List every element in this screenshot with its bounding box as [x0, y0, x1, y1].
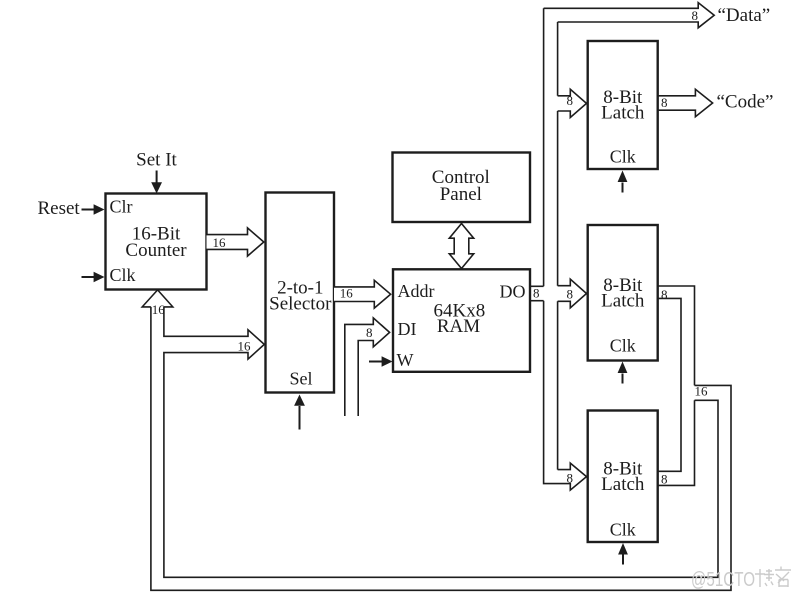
svg-text:Latch: Latch	[601, 103, 645, 124]
watermark CJK glyph strokes	[755, 567, 791, 588]
wire DO vertical bus right side	[557, 22, 559, 470]
wire Set It arrow into counter top	[151, 171, 162, 194]
svg-text:Clk: Clk	[610, 520, 636, 540]
svg-text:Counter: Counter	[125, 240, 187, 261]
svg-text:Clr: Clr	[110, 197, 133, 217]
bus latch2 output inner line joining latch3 output	[658, 298, 681, 471]
svg-text:8: 8	[567, 93, 574, 108]
wire Reset arrow into Clr	[82, 204, 105, 215]
bus counter to selector (16)	[207, 228, 264, 256]
svg-text:16: 16	[213, 235, 227, 250]
svg-text:Clk: Clk	[610, 147, 636, 167]
svg-text:@51CTO: @51CTO	[691, 569, 755, 591]
svg-text:8: 8	[567, 471, 574, 486]
block U1 16-Bit Counter	[106, 194, 207, 290]
svg-text:8: 8	[661, 95, 668, 110]
svg-text:Sel: Sel	[289, 369, 312, 389]
svg-text:Panel: Panel	[440, 184, 482, 205]
wire clk arrow latch2	[618, 362, 628, 384]
svg-text:W: W	[397, 350, 414, 370]
bus DO output stub (8)	[530, 286, 544, 300]
bus selector to RAM Addr (16)	[334, 280, 391, 308]
wire feedback outer boundary (left/bottom/right)	[151, 307, 731, 590]
svg-text:8: 8	[567, 287, 574, 302]
wire clock arrow into Clk (counter)	[82, 272, 105, 283]
svg-text:8: 8	[661, 472, 668, 487]
svg-text:Clk: Clk	[610, 336, 636, 356]
wire DO vertical bus left side with latch3 feed	[544, 8, 587, 490]
svg-text:RAM: RAM	[437, 316, 480, 337]
bus latch1 to "Code" (8)	[658, 89, 713, 116]
block U7 8-Bit Latch (bottom)	[588, 411, 658, 543]
svg-text:DO: DO	[500, 282, 526, 302]
bus tap into latch2 (8)	[558, 279, 587, 308]
bus latch2 output outer line joining feedback	[658, 286, 695, 485]
wire clk arrow latch1	[618, 171, 628, 193]
bus data-in into DI (8)	[345, 318, 390, 416]
block U4 64Kx8 RAM	[393, 269, 530, 372]
svg-text:“Code”: “Code”	[717, 92, 774, 113]
svg-text:16: 16	[695, 384, 709, 399]
svg-text:Selector: Selector	[269, 293, 332, 314]
wire feedback inner boundary with branch to selector	[164, 307, 718, 577]
svg-text:8: 8	[661, 287, 668, 302]
bus top Data line to output (8)	[544, 3, 715, 28]
block U3 Control Panel	[393, 153, 531, 223]
svg-text:Set It: Set It	[136, 150, 177, 171]
svg-text:16: 16	[238, 338, 252, 353]
block U5 8-Bit Latch (top)	[588, 41, 658, 169]
svg-text:“Data”: “Data”	[718, 5, 771, 26]
block U2 2-to-1 Selector	[266, 193, 335, 393]
svg-text:Latch: Latch	[601, 291, 645, 312]
wire W write arrow	[369, 356, 393, 367]
svg-text:Clk: Clk	[110, 265, 136, 285]
svg-text:Reset: Reset	[38, 198, 81, 219]
block U6 8-Bit Latch (middle)	[588, 225, 658, 361]
svg-text:Latch: Latch	[601, 474, 645, 495]
svg-text:Addr: Addr	[398, 281, 435, 301]
svg-text:8: 8	[692, 8, 699, 23]
bus tap into latch1 (8)	[558, 89, 587, 117]
svg-text:16: 16	[340, 286, 354, 301]
wire Sel select input arrow	[294, 395, 305, 430]
bus arrowhead into counter bottom	[142, 290, 173, 307]
svg-text:DI: DI	[398, 319, 417, 339]
bus bidirectional Control Panel to RAM	[449, 224, 473, 269]
svg-text:8: 8	[366, 325, 373, 340]
svg-text:8: 8	[533, 286, 540, 301]
wire clk arrow latch3	[618, 543, 628, 565]
